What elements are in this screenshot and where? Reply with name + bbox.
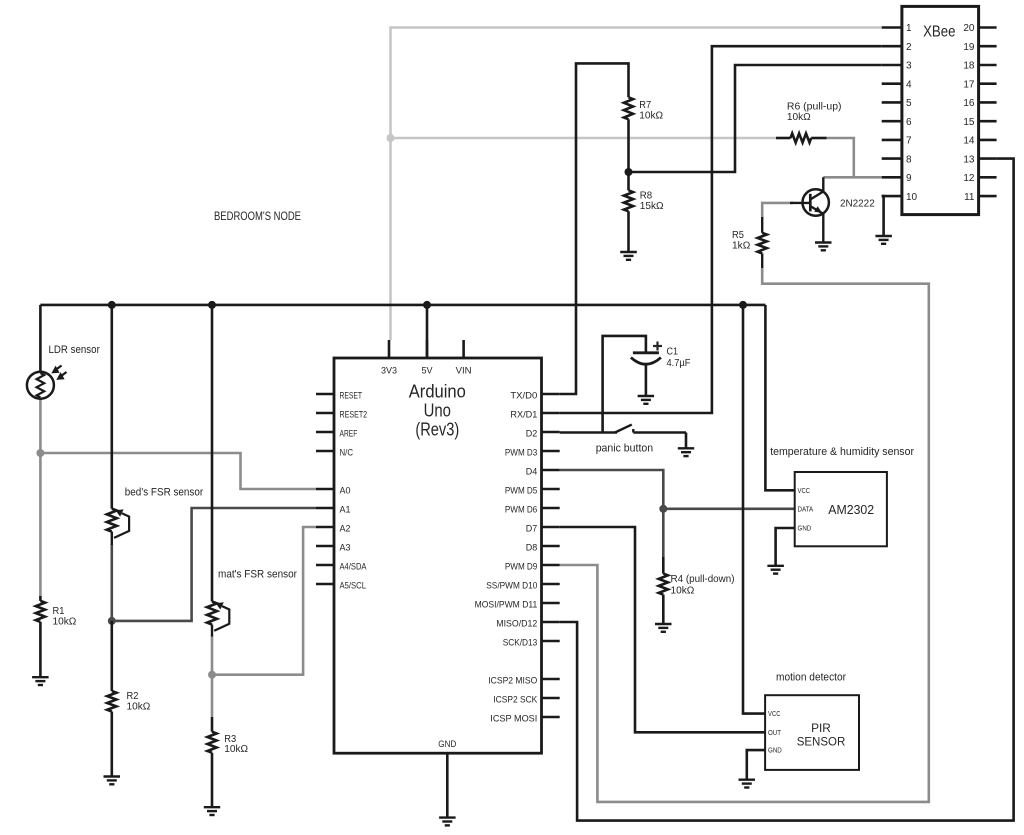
pin Arduino RESET2	[316, 410, 367, 420]
svg-text:R4 (pull-down): R4 (pull-down)	[671, 573, 735, 585]
pin Arduino PWM D5	[505, 486, 560, 496]
svg-text:17: 17	[963, 79, 975, 90]
wire XBee pin10 to ground	[882, 196, 884, 236]
wire light-gray net XBee pin1 to Arduino 3V3	[391, 28, 882, 341]
ground XBee pin10	[875, 236, 892, 244]
svg-text:PWM D5: PWM D5	[505, 486, 537, 496]
svg-text:9: 9	[906, 173, 912, 184]
wire gray net R5 bottom loop to Arduino PWM D9	[560, 268, 929, 802]
pin XBee 9	[882, 173, 912, 184]
svg-text:D4: D4	[526, 467, 538, 477]
component U1 Arduino Uno board box	[334, 358, 542, 753]
ground R8	[620, 252, 637, 260]
junction node bus to PIR VCC	[739, 301, 747, 309]
capacitor C1 4.7uF polarized	[631, 353, 661, 396]
label R1 value	[53, 605, 77, 628]
svg-text:10kΩ: 10kΩ	[127, 701, 151, 713]
svg-text:DATA: DATA	[798, 507, 814, 514]
svg-text:18: 18	[963, 61, 975, 72]
wire 5V top power bus	[40, 304, 765, 307]
svg-text:RESET2: RESET2	[340, 410, 368, 420]
svg-text:10kΩ: 10kΩ	[671, 585, 695, 597]
pin Arduino A2	[316, 524, 351, 534]
svg-text:12: 12	[963, 173, 975, 184]
force sensor mat FSR	[207, 602, 229, 637]
svg-text:PWM D6: PWM D6	[505, 505, 537, 515]
junction gray node A2 tap	[208, 671, 216, 679]
resistor R8	[624, 172, 633, 252]
wire dark-gray net bed FSR divider to Arduino A1	[112, 508, 316, 621]
svg-text:motion detector: motion detector	[776, 672, 846, 684]
pin Arduino 3V3	[381, 340, 397, 376]
ground AM2302	[767, 566, 784, 574]
pin Arduino N/C	[316, 448, 353, 458]
pin Arduino D4	[526, 467, 560, 477]
wire bus drop to bed FSR top	[111, 305, 114, 509]
pin XBee 17	[963, 79, 996, 90]
label R4 value	[671, 573, 735, 596]
pin XBee 3	[882, 61, 912, 72]
svg-text:RX/D1: RX/D1	[510, 410, 537, 420]
pin Arduino GND	[438, 739, 456, 818]
wire bus drop to Arduino 5V pin	[426, 305, 429, 358]
svg-text:10kΩ: 10kΩ	[224, 743, 248, 755]
ground capacitor C1	[638, 396, 655, 404]
svg-text:LDR sensor: LDR sensor	[49, 344, 101, 356]
pin Arduino PWM D6	[505, 505, 560, 515]
svg-text:PWM D9: PWM D9	[505, 562, 537, 572]
svg-text:20: 20	[963, 23, 975, 34]
resistor R2	[107, 621, 116, 777]
pin Arduino MOSI/PWM D11	[475, 600, 560, 610]
pin XBee 8	[882, 154, 912, 165]
svg-text:Uno: Uno	[424, 401, 451, 421]
pin Arduino D2	[526, 429, 560, 439]
svg-text:PWM D3: PWM D3	[505, 448, 537, 458]
pin Arduino AREF	[316, 429, 358, 439]
svg-text:SENSOR: SENSOR	[797, 735, 846, 749]
pin Arduino ICSP2 MISO	[488, 676, 559, 686]
svg-text:SCK/D13: SCK/D13	[503, 638, 538, 648]
ground R1	[32, 677, 49, 685]
svg-text:11: 11	[964, 192, 975, 203]
svg-text:7: 7	[906, 136, 912, 147]
wire bus drop to mat FSR top	[211, 305, 214, 602]
pin Arduino SS/PWM D10	[486, 581, 559, 591]
svg-text:SS/PWM D10: SS/PWM D10	[486, 581, 537, 591]
wire gray net R6 right to XBee pin9 and collector	[823, 138, 881, 177]
svg-text:10kΩ: 10kΩ	[639, 110, 663, 122]
svg-text:C1: C1	[667, 346, 679, 358]
pin Arduino A0	[316, 486, 351, 496]
svg-text:14: 14	[963, 136, 975, 147]
pin Arduino A1	[316, 505, 351, 515]
junction dark-gray node DATA R4 tap	[659, 505, 667, 513]
svg-text:10kΩ: 10kΩ	[53, 616, 77, 628]
label C1 plus and value	[653, 342, 690, 370]
svg-text:1kΩ: 1kΩ	[732, 239, 750, 251]
pin XBee 15	[963, 117, 996, 128]
pin XBee 11	[964, 192, 996, 203]
svg-text:10kΩ: 10kΩ	[787, 111, 811, 123]
pin Arduino TX/D0	[510, 391, 559, 401]
svg-text:ICSP2 MISO: ICSP2 MISO	[488, 676, 537, 686]
ground PIR	[739, 780, 756, 788]
pin XBee 6	[882, 117, 912, 128]
label R3 value	[224, 733, 248, 755]
wire AM2302 GND to ground	[776, 528, 795, 566]
svg-text:AREF: AREF	[340, 429, 358, 439]
pin XBee 7	[882, 136, 912, 147]
pin XBee 18	[963, 61, 996, 72]
pin XBee 10	[882, 192, 918, 203]
svg-text:BEDROOM'S NODE: BEDROOM'S NODE	[214, 209, 301, 223]
pin XBee 20	[963, 23, 996, 34]
svg-text:3V3: 3V3	[381, 366, 397, 376]
svg-text:(Rev3): (Rev3)	[415, 420, 459, 440]
svg-text:8: 8	[906, 154, 912, 165]
wire gray net mat FSR divider to Arduino A2	[212, 527, 316, 717]
wire Arduino D2 to panic button left contact	[560, 431, 617, 434]
pin XBee 5	[882, 98, 912, 109]
svg-text:4.7µF: 4.7µF	[667, 357, 691, 369]
svg-text:Arduino: Arduino	[409, 382, 466, 402]
wire R7 R8 junction to XBee pin3	[629, 65, 882, 172]
svg-text:GND: GND	[768, 748, 782, 755]
wire bus drop to LDR sensor	[39, 305, 42, 372]
svg-text:XBee: XBee	[923, 23, 955, 40]
svg-text:1: 1	[906, 23, 912, 34]
ground R2	[104, 777, 121, 785]
svg-text:6: 6	[906, 117, 912, 128]
svg-text:5V: 5V	[422, 366, 434, 376]
force sensor bed FSR	[107, 509, 129, 545]
ground R4	[655, 624, 672, 632]
ground panic button	[678, 448, 694, 456]
svg-text:16: 16	[963, 98, 975, 109]
resistor R5	[758, 217, 767, 268]
wire dark-gray net Arduino D4 to AM2302 DATA and R4	[560, 470, 795, 557]
junction node bus to Arduino 5V	[423, 301, 431, 309]
svg-text:OUT: OUT	[768, 730, 782, 737]
wire Arduino RX/D1 to XBee pin2	[560, 46, 882, 413]
resistor R7	[624, 97, 633, 172]
svg-text:2: 2	[906, 42, 912, 53]
svg-text:15kΩ: 15kΩ	[640, 200, 664, 212]
wire C1 branch to D2 line	[603, 336, 646, 433]
pin XBee 1	[882, 23, 912, 34]
svg-text:A3: A3	[340, 543, 351, 553]
svg-text:10: 10	[906, 192, 918, 203]
pin XBee 19	[963, 42, 996, 53]
svg-text:VIN: VIN	[456, 366, 472, 376]
pin XBee 2	[882, 42, 912, 53]
pin Arduino SCK/D13	[503, 638, 560, 648]
sensor U3 AM2302 box	[795, 472, 887, 546]
svg-text:D2: D2	[526, 429, 538, 439]
pin XBee 13	[963, 154, 996, 165]
svg-text:mat's FSR sensor: mat's FSR sensor	[218, 569, 297, 581]
svg-text:5: 5	[906, 98, 912, 109]
pin Arduino RESET	[316, 391, 362, 401]
svg-text:A1: A1	[340, 505, 351, 515]
svg-text:VCC: VCC	[798, 488, 811, 495]
svg-text:GND: GND	[798, 526, 812, 533]
svg-text:TX/D0: TX/D0	[510, 391, 537, 401]
svg-text:A2: A2	[340, 524, 351, 534]
wire bus corner to AM2302 VCC	[765, 305, 794, 490]
svg-text:ICSP MOSI: ICSP MOSI	[490, 714, 537, 724]
wire gray net LDR divider to Arduino A0	[40, 399, 316, 596]
pin XBee 12	[963, 173, 996, 184]
ground 2N2222 emitter	[815, 243, 832, 251]
pin Arduino D8	[526, 543, 560, 553]
wire PIR GND to ground	[747, 750, 765, 780]
svg-text:A0: A0	[340, 486, 351, 496]
svg-text:19: 19	[963, 42, 975, 53]
photoresistor LDR sensor	[27, 366, 67, 399]
svg-text:13: 13	[963, 154, 975, 165]
pin Arduino D7	[526, 524, 560, 534]
wire Arduino TX/D0 to R7 top	[560, 63, 629, 394]
svg-text:A4/SDA: A4/SDA	[340, 562, 368, 572]
svg-text:AM2302: AM2302	[828, 502, 874, 517]
pin Arduino MISO/D12	[496, 619, 559, 629]
junction light-gray node on 3V3 riser	[387, 134, 395, 142]
wire bus drop to PIR VCC	[743, 305, 765, 714]
ground R3	[204, 807, 220, 815]
svg-text:ICSP2 SCK: ICSP2 SCK	[493, 695, 538, 705]
svg-text:D7: D7	[526, 524, 538, 534]
svg-text:D8: D8	[526, 543, 538, 553]
svg-text:MOSI/PWM D11: MOSI/PWM D11	[475, 600, 538, 610]
pin Arduino PWM D9	[505, 562, 560, 572]
label R6 value	[787, 100, 842, 123]
pin Arduino RX/D1	[510, 410, 559, 420]
pin XBee 14	[963, 136, 996, 147]
transistor Q1 2N2222	[790, 177, 829, 242]
wire light-gray branch to R6 left lead	[391, 137, 777, 140]
svg-text:2N2222: 2N2222	[840, 198, 875, 210]
pin Arduino ICSP2 SCK	[493, 695, 559, 705]
pin Arduino A5/SCL	[316, 581, 366, 591]
sensor U4 PIR box	[765, 695, 859, 770]
junction node bus to bed FSR	[108, 301, 116, 309]
label R8 value	[640, 189, 664, 212]
junction node bus to mat FSR	[208, 301, 216, 309]
svg-text:A5/SCL: A5/SCL	[340, 581, 367, 591]
pin Arduino VIN	[456, 340, 472, 376]
resistor R1	[36, 596, 45, 677]
junction gray node A0 tap	[36, 449, 44, 457]
svg-text:3: 3	[906, 61, 912, 72]
resistor R3	[207, 717, 216, 807]
svg-text:temperature & humidity sensor: temperature & humidity sensor	[770, 446, 914, 458]
label R7 value	[639, 99, 663, 122]
pin Arduino A4/SDA	[316, 562, 367, 572]
wire gray net R5 top to 2N2222 base	[762, 203, 793, 217]
pin XBee 16	[963, 98, 996, 109]
pin Arduino A3	[316, 543, 351, 553]
resistor R4 pull-down	[659, 557, 668, 624]
svg-text:15: 15	[963, 117, 975, 128]
svg-text:PIR: PIR	[811, 721, 831, 735]
svg-text:GND: GND	[438, 739, 456, 749]
svg-text:panic button: panic button	[596, 443, 653, 455]
junction node R7 R8 divider	[625, 168, 633, 176]
component U2 XBee module box	[902, 6, 979, 214]
pin Arduino 5V	[422, 340, 434, 376]
svg-text:VCC: VCC	[768, 711, 781, 718]
pin Arduino ICSP MOSI	[490, 714, 559, 724]
ground Arduino GND	[439, 818, 456, 826]
wire Arduino D7 to PIR OUT	[560, 527, 765, 732]
junction dark-gray node A1 tap	[108, 617, 116, 625]
label R2 value	[127, 690, 151, 712]
pin Arduino PWM D3	[505, 448, 560, 458]
svg-text:4: 4	[906, 79, 912, 90]
svg-text:RESET: RESET	[340, 391, 363, 401]
svg-text:bed's FSR sensor: bed's FSR sensor	[125, 487, 204, 499]
svg-text:N/C: N/C	[340, 448, 354, 458]
resistor R6 pull-up	[776, 133, 827, 142]
switch panic button	[615, 425, 686, 449]
svg-text:MISO/D12: MISO/D12	[496, 619, 537, 629]
pin XBee 4	[882, 79, 912, 90]
label R5 value	[732, 229, 750, 252]
wire XBee pin13 loop to Arduino MISO/D12	[560, 159, 1014, 821]
